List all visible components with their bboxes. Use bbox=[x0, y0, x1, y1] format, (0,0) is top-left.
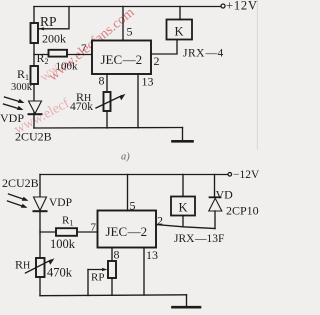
wire top +12V rail (a) bbox=[34, 6, 221, 8]
op-amp U2 JEC-2 box (b) bbox=[98, 211, 157, 248]
potentiometer RP (b) bbox=[88, 248, 116, 296]
rheostat RH (a) bbox=[96, 92, 126, 128]
svg-text:100k: 100k bbox=[56, 61, 79, 73]
photodiode VDP (a) bbox=[4, 97, 42, 114]
wire pin5 (a) bbox=[122, 7, 124, 41]
scan edge artifact right bbox=[256, 0, 258, 150]
wire bottom rail (b) bbox=[40, 294, 187, 297]
labels circuit (b) bbox=[2, 169, 260, 284]
svg-text:2CU2B: 2CU2B bbox=[2, 176, 39, 190]
node +12V terminal (a) bbox=[221, 4, 225, 8]
wire top +12V rail (b) bbox=[40, 174, 228, 176]
svg-text:2: 2 bbox=[154, 54, 160, 68]
wire pin2 (b) bbox=[156, 225, 215, 229]
diode VD 2CP10 (b) bbox=[209, 175, 222, 229]
svg-text:a): a) bbox=[121, 152, 130, 163]
svg-text:RP: RP bbox=[91, 272, 104, 284]
svg-text:VDP: VDP bbox=[49, 197, 72, 209]
svg-text:VD: VD bbox=[216, 188, 234, 202]
svg-text:K: K bbox=[175, 25, 184, 39]
resistor R2 (a) bbox=[49, 50, 68, 57]
svg-text:K: K bbox=[179, 201, 188, 215]
node 12V terminal (b) bbox=[228, 173, 232, 177]
wire pin2 to relay (a) bbox=[151, 40, 177, 55]
svg-text:RH: RH bbox=[15, 258, 30, 272]
rheostat RH (b) bbox=[26, 258, 55, 277]
wire pin13 (b) bbox=[143, 248, 145, 295]
svg-text:JRX—4: JRX—4 bbox=[183, 48, 224, 60]
watermark fragment middle-left bbox=[37, 60, 63, 85]
wire pin8 (a) bbox=[106, 74, 108, 92]
wire R2 to pin7 (a) bbox=[67, 41, 92, 55]
resistor R1 (b) bbox=[56, 228, 77, 236]
relay K coil (b) bbox=[171, 175, 195, 227]
wire R1 branch (b) bbox=[40, 231, 56, 233]
wire bottom rail (a) bbox=[34, 127, 183, 130]
photodiode VDP (b) bbox=[8, 175, 47, 212]
svg-text:JRX—13F: JRX—13F bbox=[174, 233, 224, 245]
svg-text:+12V: +12V bbox=[226, 0, 258, 13]
svg-text:200k: 200k bbox=[42, 32, 66, 46]
svg-text:300k: 300k bbox=[11, 82, 33, 93]
svg-text:13: 13 bbox=[142, 75, 154, 89]
op-amp U1 JEC-2 box (a) bbox=[92, 41, 151, 75]
svg-text:2CU2B: 2CU2B bbox=[15, 130, 52, 144]
watermark www.elecfans.com top bbox=[46, 5, 138, 84]
resistor RP (a) bbox=[31, 23, 39, 43]
svg-text:5: 5 bbox=[127, 25, 133, 39]
watermark www.elecf lower-left bbox=[12, 96, 72, 138]
resistor R1 (a) bbox=[31, 66, 39, 84]
svg-text:13: 13 bbox=[146, 248, 158, 262]
wire RP wiper to rail (a) bbox=[39, 7, 70, 29]
wire K top to rail (a) bbox=[179, 7, 181, 20]
wire pin13 (a) bbox=[137, 74, 139, 128]
relay K coil (a) bbox=[167, 20, 193, 40]
svg-text:JEC—2: JEC—2 bbox=[101, 52, 143, 67]
wire pin5 (b) bbox=[127, 175, 129, 211]
wire left rail (b) bbox=[39, 212, 41, 258]
labels circuit (a) bbox=[0, 0, 258, 162]
svg-text:7: 7 bbox=[91, 222, 97, 234]
svg-text:8: 8 bbox=[114, 248, 120, 262]
svg-text:470k: 470k bbox=[70, 101, 93, 113]
ground (b) bbox=[173, 295, 201, 307]
svg-text:VDP: VDP bbox=[0, 111, 24, 125]
svg-text:−12V: −12V bbox=[233, 169, 259, 181]
wire left rail (a) bbox=[33, 7, 35, 129]
svg-text:JEC—2: JEC—2 bbox=[106, 224, 148, 239]
svg-text:7: 7 bbox=[81, 43, 87, 55]
svg-text:8: 8 bbox=[99, 74, 105, 88]
svg-text:2CP10: 2CP10 bbox=[226, 204, 259, 218]
wire R2 branch (a) bbox=[34, 54, 49, 56]
ground (a) bbox=[173, 128, 193, 142]
svg-text:2: 2 bbox=[157, 214, 163, 228]
svg-text:470k: 470k bbox=[47, 266, 73, 280]
wire R1 to pin7 (b) bbox=[77, 231, 98, 233]
wire RH to bottom rail (b) bbox=[39, 277, 41, 296]
svg-text:5: 5 bbox=[130, 199, 136, 213]
svg-text:RP: RP bbox=[40, 14, 57, 29]
svg-text:100k: 100k bbox=[50, 237, 76, 251]
